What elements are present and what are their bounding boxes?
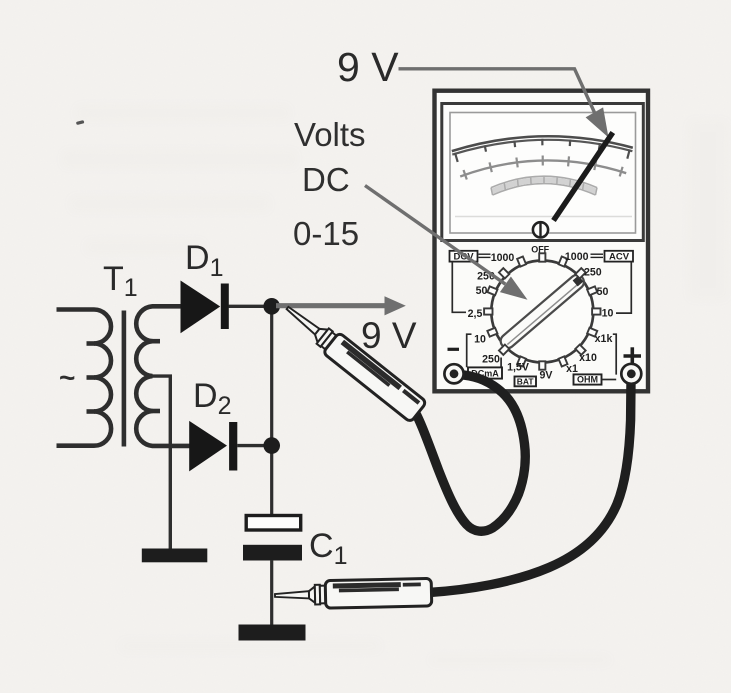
diode D2 (189, 421, 227, 472)
node A junction dot (263, 298, 280, 315)
meter scale arcs: top band (452, 136, 633, 151)
knob handle bar (498, 272, 587, 351)
probe (red lead) touching node A (279, 298, 426, 423)
svg-text:2,5: 2,5 (468, 308, 483, 320)
stray pen mark (76, 120, 85, 125)
ACV range bracket (616, 262, 631, 313)
meter scale window (442, 104, 644, 241)
callout arrow Volts DC to dial (365, 186, 505, 285)
ACV box (605, 251, 634, 262)
transformer T1 primary winding (57, 310, 112, 446)
svg-text:x1: x1 (566, 363, 578, 375)
svg-text:Volts: Volts (294, 116, 366, 153)
dial range labels (468, 245, 614, 382)
svg-text:x10: x10 (579, 352, 597, 364)
svg-text:ACV: ACV (609, 252, 630, 263)
svg-text:250: 250 (584, 266, 602, 278)
svg-text:BAT: BAT (517, 376, 535, 386)
output arrow 9V (276, 303, 388, 308)
svg-text:OHM: OHM (577, 375, 598, 385)
wire: secondary centre tap (152, 376, 170, 549)
knob pointer mark (573, 276, 584, 287)
OHM box (574, 374, 602, 384)
svg-text:9 V: 9 V (361, 315, 417, 356)
multimeter case (435, 91, 649, 392)
scale rest line (455, 216, 632, 218)
svg-text:1000: 1000 (491, 252, 515, 264)
svg-text:50: 50 (597, 286, 609, 298)
rotary switch knob (491, 261, 593, 363)
callout line 9V to needle (399, 69, 595, 113)
wire: D2 cathode to node B (237, 444, 266, 447)
probe (black lead) touching C1 bottom wire (275, 578, 432, 609)
meter scale arc: middle (460, 160, 626, 176)
meter needle (554, 133, 613, 221)
faint bleed-through ghosts (62, 105, 728, 665)
BAT box (515, 377, 537, 387)
ground (below C1) (239, 625, 306, 641)
transformer T1 core (122, 311, 127, 447)
svg-text:OFF: OFF (531, 245, 549, 255)
rotary dial position ticks (484, 253, 600, 369)
primary coil cusp notches (87, 344, 96, 412)
capacitor C1 top plate (246, 516, 301, 531)
wire: C1 to ground (270, 560, 273, 625)
transformer T1 secondary winding (136, 306, 190, 446)
DCmA box (468, 367, 502, 378)
svg-text:~: ~ (59, 362, 75, 393)
svg-text:10: 10 (474, 334, 486, 346)
diode D1 (181, 281, 221, 334)
capacitor C1 bottom plate (243, 545, 302, 561)
pivot screw symbol (533, 222, 548, 237)
test lead cable: probe at node A to − terminal (413, 375, 526, 532)
node B junction dot (263, 437, 280, 454)
DCV range bracket (452, 262, 466, 313)
svg-text:1000: 1000 (565, 251, 589, 263)
minus sign (448, 348, 460, 351)
DCmA bracket (467, 334, 472, 367)
terminal − (COM) (444, 364, 463, 383)
svg-text:10: 10 (602, 308, 614, 320)
svg-text:1,5V: 1,5V (507, 362, 529, 374)
svg-text:50: 50 (476, 285, 488, 297)
svg-text:9 V: 9 V (337, 44, 399, 90)
svg-text:250: 250 (482, 354, 500, 366)
wire: output bus node A to C1 (270, 306, 273, 514)
wire: D1 cathode to node A (229, 305, 267, 308)
plus sign (624, 354, 642, 358)
test lead cable: probe at C1 to + terminal (429, 381, 631, 593)
svg-text:x1k: x1k (595, 333, 613, 345)
DCV box (450, 251, 478, 262)
meter scale arc: bottom segmented band (491, 176, 597, 187)
OHM bracket (613, 334, 616, 374)
ground (centre tap) (142, 549, 208, 563)
secondary coil cusp notches (152, 341, 160, 411)
callout arrowhead at needle (586, 107, 609, 137)
svg-text:0-15: 0-15 (293, 215, 359, 252)
terminal + (621, 364, 641, 384)
svg-text:DC: DC (302, 161, 350, 198)
svg-text:9V: 9V (540, 370, 553, 382)
